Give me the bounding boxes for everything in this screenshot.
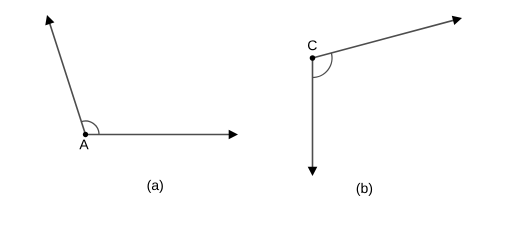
node C (vertex dot) xyxy=(310,55,316,61)
angle arc at A xyxy=(81,121,99,135)
wire: ray from vertex A to the right xyxy=(86,134,230,136)
label C xyxy=(308,40,317,50)
arrowhead of up-left ray xyxy=(45,15,54,25)
arrowhead of right ray xyxy=(229,130,238,140)
wire: ray from vertex A up-left xyxy=(50,23,86,134)
label (b) xyxy=(357,183,372,196)
wire: ray from vertex C up-right xyxy=(313,20,455,58)
angle arc at C xyxy=(313,53,333,78)
arrowhead of downward ray xyxy=(308,167,318,176)
arrowhead of up-right ray xyxy=(452,16,462,25)
node A (vertex dot) xyxy=(83,132,88,137)
label (a) xyxy=(148,180,163,193)
label A xyxy=(79,140,88,150)
wire: ray from vertex C downward xyxy=(312,58,314,168)
